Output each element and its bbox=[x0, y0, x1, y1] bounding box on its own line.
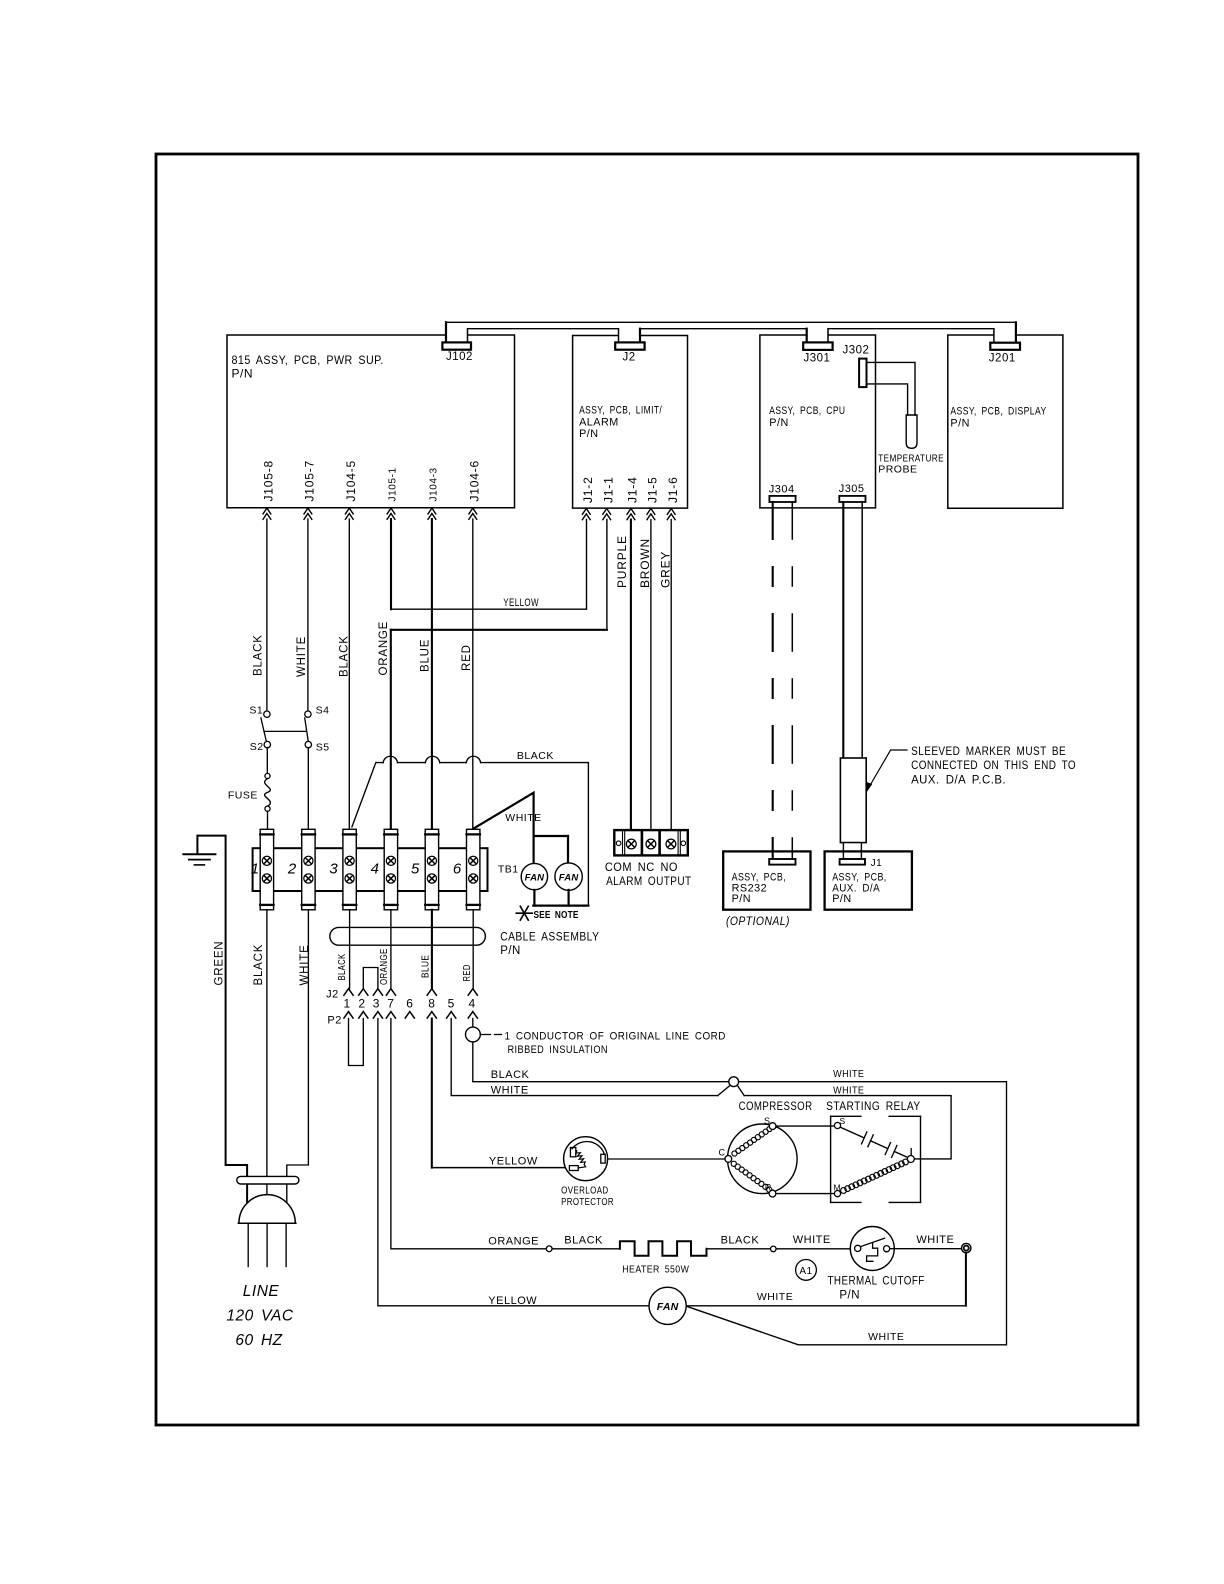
svg-text:ASSY, PCB,: ASSY, PCB, bbox=[832, 871, 887, 883]
svg-text:TEMPERATURE: TEMPERATURE bbox=[878, 452, 944, 464]
svg-text:S1: S1 bbox=[249, 705, 263, 717]
svg-text:COMPRESSOR: COMPRESSOR bbox=[739, 1101, 813, 1113]
svg-text:S: S bbox=[840, 1116, 846, 1126]
svg-text:J105-1: J105-1 bbox=[388, 467, 399, 501]
svg-text:M: M bbox=[834, 1183, 842, 1193]
svg-text:P/N: P/N bbox=[839, 1290, 860, 1302]
svg-text:WHITE: WHITE bbox=[833, 1084, 864, 1096]
svg-text:RED: RED bbox=[462, 964, 473, 981]
svg-text:BLUE: BLUE bbox=[420, 639, 432, 672]
svg-text:GREEN: GREEN bbox=[214, 941, 226, 986]
svg-text:3: 3 bbox=[329, 860, 338, 877]
svg-text:SEE NOTE: SEE NOTE bbox=[534, 909, 579, 921]
svg-text:CABLE ASSEMBLY: CABLE ASSEMBLY bbox=[500, 931, 599, 943]
svg-text:ASSY, PCB, LIMIT/: ASSY, PCB, LIMIT/ bbox=[579, 405, 662, 417]
svg-text:J1-4: J1-4 bbox=[626, 476, 640, 503]
svg-text:BLACK: BLACK bbox=[337, 954, 348, 981]
svg-text:3: 3 bbox=[373, 996, 380, 1010]
svg-text:S4: S4 bbox=[316, 705, 330, 717]
svg-text:FAN: FAN bbox=[559, 873, 580, 884]
svg-text:PURPLE: PURPLE bbox=[615, 535, 629, 588]
svg-text:BLUE: BLUE bbox=[421, 955, 432, 978]
svg-text:6: 6 bbox=[406, 996, 413, 1010]
svg-text:J201: J201 bbox=[989, 353, 1016, 365]
svg-text:WHITE: WHITE bbox=[916, 1234, 954, 1246]
svg-text:J305: J305 bbox=[839, 483, 865, 495]
svg-text:J105-8: J105-8 bbox=[262, 460, 276, 502]
svg-text:BLACK: BLACK bbox=[253, 944, 265, 986]
svg-text:J104-6: J104-6 bbox=[468, 460, 482, 502]
svg-text:FAN: FAN bbox=[657, 1301, 679, 1313]
svg-text:FUSE: FUSE bbox=[228, 790, 258, 802]
svg-text:BLACK: BLACK bbox=[253, 634, 265, 676]
svg-text:P/N: P/N bbox=[832, 893, 852, 905]
svg-text:RED: RED bbox=[461, 644, 473, 671]
svg-text:P/N: P/N bbox=[732, 893, 752, 905]
svg-text:J301: J301 bbox=[804, 353, 831, 365]
svg-text:5: 5 bbox=[411, 860, 420, 877]
svg-text:WHITE: WHITE bbox=[757, 1291, 793, 1303]
svg-text:HEATER 550W: HEATER 550W bbox=[622, 1263, 689, 1275]
svg-text:WHITE: WHITE bbox=[491, 1085, 529, 1097]
svg-text:THERMAL CUTOFF: THERMAL CUTOFF bbox=[828, 1276, 925, 1288]
svg-text:GREY: GREY bbox=[658, 551, 672, 588]
svg-text:2: 2 bbox=[358, 996, 365, 1010]
svg-text:5: 5 bbox=[448, 996, 455, 1010]
svg-text:P/N: P/N bbox=[500, 945, 521, 957]
svg-text:YELLOW: YELLOW bbox=[488, 1295, 537, 1307]
svg-text:A1: A1 bbox=[799, 1266, 812, 1277]
svg-text:J104-3: J104-3 bbox=[429, 467, 440, 501]
svg-text:CONNECTED ON THIS END TO: CONNECTED ON THIS END TO bbox=[911, 760, 1076, 772]
svg-text:YELLOW: YELLOW bbox=[503, 597, 539, 609]
svg-text:J102: J102 bbox=[446, 351, 473, 363]
svg-text:6: 6 bbox=[453, 860, 462, 877]
svg-text:P2: P2 bbox=[327, 1015, 341, 1027]
svg-text:J1-6: J1-6 bbox=[666, 476, 680, 503]
svg-text:P/N: P/N bbox=[950, 418, 970, 430]
svg-text:4: 4 bbox=[469, 996, 476, 1010]
svg-text:BLACK: BLACK bbox=[338, 635, 350, 677]
svg-text:WHITE: WHITE bbox=[793, 1234, 831, 1246]
svg-text:J1: J1 bbox=[871, 858, 883, 869]
svg-text:P/N: P/N bbox=[232, 367, 254, 381]
svg-text:8: 8 bbox=[428, 996, 435, 1010]
svg-text:P/N: P/N bbox=[579, 428, 599, 440]
svg-text:S2: S2 bbox=[250, 741, 264, 753]
svg-text:RIBBED INSULATION: RIBBED INSULATION bbox=[508, 1044, 609, 1056]
svg-text:WHITE: WHITE bbox=[505, 812, 541, 824]
svg-text:ASSY, PCB, DISPLAY: ASSY, PCB, DISPLAY bbox=[950, 406, 1046, 418]
svg-text:C: C bbox=[719, 1148, 726, 1158]
svg-text:ASSY, PCB, CPU: ASSY, PCB, CPU bbox=[769, 405, 845, 417]
svg-text:J2: J2 bbox=[326, 989, 339, 1001]
svg-text:WHITE: WHITE bbox=[868, 1331, 904, 1343]
svg-text:J104-5: J104-5 bbox=[344, 460, 358, 502]
svg-text:1: 1 bbox=[251, 860, 260, 877]
svg-text:WHITE: WHITE bbox=[296, 636, 308, 677]
svg-text:SLEEVED MARKER MUST BE: SLEEVED MARKER MUST BE bbox=[911, 746, 1066, 758]
svg-text:WHITE: WHITE bbox=[299, 944, 311, 985]
svg-text:PROBE: PROBE bbox=[878, 464, 917, 476]
svg-text:ORANGE: ORANGE bbox=[379, 948, 390, 985]
svg-text:WHITE: WHITE bbox=[833, 1068, 864, 1080]
svg-text:COM NC NO: COM NC NO bbox=[605, 860, 678, 874]
svg-text:2: 2 bbox=[287, 860, 297, 877]
svg-text:120 VAC: 120 VAC bbox=[226, 1308, 293, 1325]
svg-text:1: 1 bbox=[344, 996, 351, 1010]
svg-text:J2: J2 bbox=[623, 352, 636, 364]
svg-text:BLACK: BLACK bbox=[564, 1235, 603, 1247]
svg-text:ORANGE: ORANGE bbox=[488, 1236, 539, 1248]
svg-text:ORANGE: ORANGE bbox=[378, 621, 390, 676]
svg-text:BLACK: BLACK bbox=[721, 1235, 760, 1247]
svg-text:YELLOW: YELLOW bbox=[489, 1156, 538, 1168]
svg-text:ASSY, PCB,: ASSY, PCB, bbox=[732, 871, 787, 883]
svg-text:ALARM: ALARM bbox=[579, 416, 619, 428]
svg-text:BROWN: BROWN bbox=[638, 538, 652, 588]
svg-text:ALARM OUTPUT: ALARM OUTPUT bbox=[606, 874, 692, 888]
svg-text:4: 4 bbox=[371, 860, 380, 877]
svg-text:R: R bbox=[765, 1182, 772, 1192]
svg-text:J105-7: J105-7 bbox=[303, 460, 317, 502]
svg-text:J1-1: J1-1 bbox=[601, 476, 615, 503]
svg-text:J1-2: J1-2 bbox=[581, 476, 595, 503]
svg-text:TB1: TB1 bbox=[498, 864, 519, 876]
svg-text:(OPTIONAL): (OPTIONAL) bbox=[726, 914, 790, 928]
svg-text:60 HZ: 60 HZ bbox=[235, 1332, 282, 1349]
svg-text:STARTING RELAY: STARTING RELAY bbox=[826, 1101, 921, 1113]
svg-text:PROTECTOR: PROTECTOR bbox=[561, 1196, 614, 1208]
svg-text:BLACK: BLACK bbox=[517, 750, 554, 762]
svg-text:S: S bbox=[764, 1116, 771, 1126]
svg-text:J304: J304 bbox=[769, 483, 795, 495]
svg-text:AUX. D/A P.C.B.: AUX. D/A P.C.B. bbox=[911, 775, 1006, 787]
svg-text:7: 7 bbox=[387, 996, 394, 1010]
svg-text:LINE: LINE bbox=[243, 1283, 280, 1300]
svg-text:P/N: P/N bbox=[769, 417, 789, 429]
svg-text:J302: J302 bbox=[843, 345, 870, 357]
svg-text:J1-5: J1-5 bbox=[646, 476, 660, 503]
svg-text:BLACK: BLACK bbox=[491, 1069, 530, 1081]
svg-text:FAN: FAN bbox=[525, 873, 546, 884]
svg-text:815 ASSY, PCB, PWR SUP.: 815 ASSY, PCB, PWR SUP. bbox=[232, 353, 384, 367]
svg-text:S5: S5 bbox=[316, 742, 330, 754]
svg-text:1 CONDUCTOR OF ORIGINAL LINE C: 1 CONDUCTOR OF ORIGINAL LINE CORD bbox=[505, 1031, 726, 1043]
svg-text:OVERLOAD: OVERLOAD bbox=[561, 1185, 609, 1197]
